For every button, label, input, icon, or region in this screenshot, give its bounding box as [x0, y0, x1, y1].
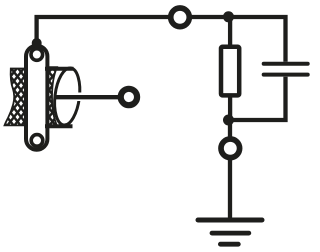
hatch block left (coil winding) — [5, 69, 39, 126]
wire resistor branch — [228, 17, 232, 46]
terminal circle on top wire — [171, 8, 190, 27]
cylinder core top line — [45, 67, 74, 71]
cylinder core bottom line — [45, 124, 73, 128]
membrane capsule — [26, 46, 47, 150]
resistor R — [221, 47, 239, 96]
junction blob at capsule top — [32, 38, 42, 48]
eyelet bottom — [31, 135, 43, 147]
cylinder core end disc — [52, 67, 83, 127]
capacitor C top plate — [264, 62, 308, 66]
wire top: transducer to capacitor — [37, 17, 286, 62]
hatch block right (coil winding) — [45, 67, 57, 126]
ground bar 2 — [212, 231, 249, 236]
wire right branch down from capacitor to bottom node — [228, 77, 286, 120]
wire bottom node to ground — [228, 120, 232, 218]
white gap halo for axis line — [73, 93, 112, 102]
capacitor C bottom plate — [264, 73, 308, 77]
terminal circle bottom — [221, 139, 240, 158]
node junction bottom — [223, 115, 234, 126]
node junction top — [223, 11, 234, 22]
terminal ring of transducer — [121, 89, 137, 105]
axis line to terminal — [56, 95, 121, 99]
ground bar 3 — [220, 242, 238, 247]
eyelet top — [31, 49, 43, 61]
ground bar 1 — [198, 218, 262, 223]
